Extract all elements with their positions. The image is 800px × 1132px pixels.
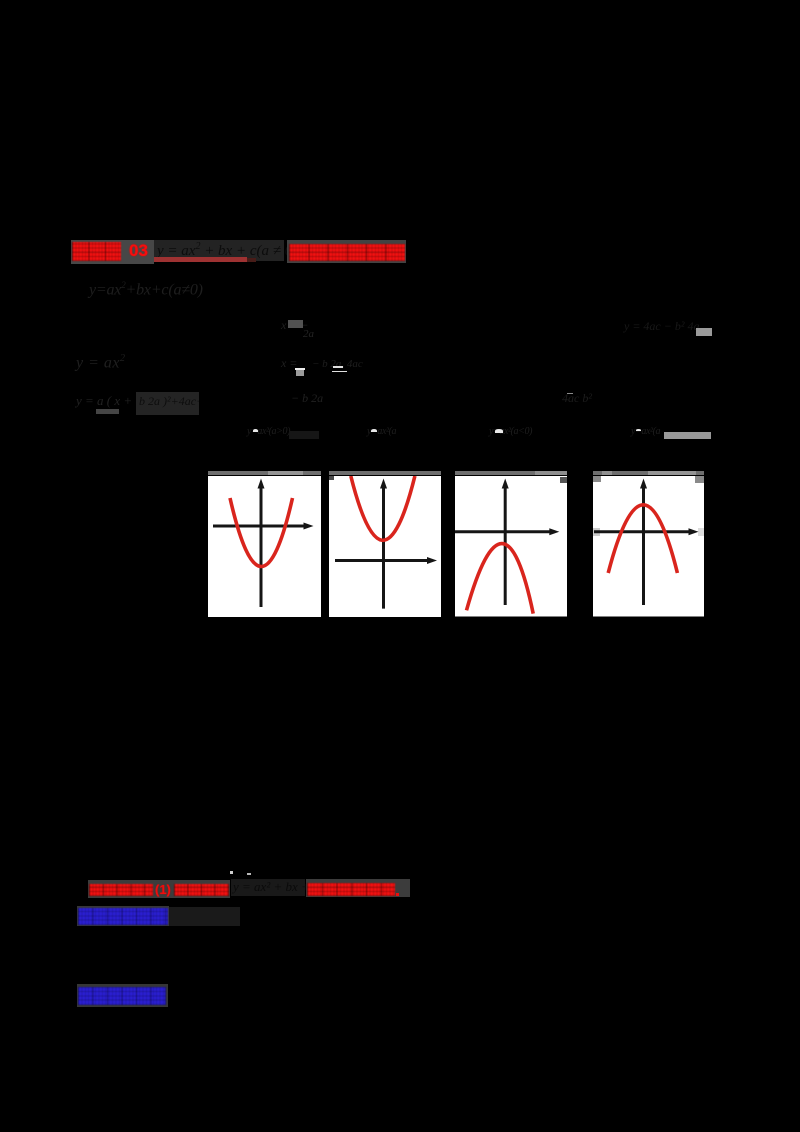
column label 2 — [367, 426, 396, 437]
faint y=ax2 left column — [76, 353, 126, 372]
title highlight bg 1 — [71, 240, 154, 264]
column label 3 — [489, 426, 532, 437]
blue heading 2 — [78, 987, 166, 1005]
title red text 的图像与性质 — [289, 244, 405, 262]
y axis — [382, 486, 385, 609]
faint fraction mid column row2 — [281, 356, 297, 371]
title highlight bg 2 — [287, 240, 406, 263]
column label 1 — [247, 426, 290, 437]
graph box 3 : downward parabola below x-axis — [455, 476, 567, 617]
x axis — [594, 530, 689, 533]
faint x=-b/2a block row1 right — [281, 318, 309, 333]
lower red heading part 2 bg — [306, 879, 410, 897]
faint formula y=ax2+bx+c under title — [89, 280, 203, 299]
graph box 2 : upward parabola above x-axis — [329, 476, 441, 617]
y axis — [504, 486, 507, 605]
faint mark right column row3 — [562, 391, 592, 406]
y axis — [642, 486, 645, 605]
parabola — [467, 544, 534, 614]
lower red heading part 2 — [307, 883, 395, 896]
faint y=(4ac-b2)/4a right column — [624, 319, 699, 334]
parabola — [230, 498, 293, 567]
parabola — [608, 505, 677, 573]
y axis — [259, 486, 262, 607]
x axis — [213, 525, 304, 528]
faint y=a(x+..)2 left column row3 — [76, 393, 132, 409]
x axis — [335, 559, 428, 562]
lower red heading highlight bg — [88, 880, 230, 898]
blue heading 1 bg — [77, 906, 169, 926]
lower red heading part 1 — [89, 884, 153, 896]
column label 4 — [631, 426, 660, 437]
blue heading 1 — [78, 908, 168, 925]
grey blank bar after label 4 — [664, 432, 712, 440]
graph box 4 : downward parabola crossing x-axis — [593, 476, 705, 617]
graph box 1 : upward parabola crossing x-axis — [208, 476, 321, 617]
grey bars above graph boxes — [208, 471, 321, 475]
blue heading 2 bg — [77, 984, 168, 1007]
title black formula — [157, 241, 297, 260]
faint fraction mid column row3 — [291, 391, 323, 406]
dark text block after blue heading 1 — [169, 907, 240, 926]
lower formula smudge — [231, 879, 305, 896]
x axis — [455, 530, 550, 533]
title formula smudge bg — [154, 240, 284, 261]
title red text 知识点 03 — [72, 242, 121, 262]
parabola — [350, 476, 414, 540]
title dark red underline — [154, 257, 247, 262]
